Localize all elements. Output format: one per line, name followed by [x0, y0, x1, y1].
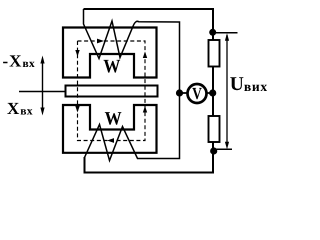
label W: bottom winding: [105, 112, 122, 125]
wire: bottom supply wire from W2 left lead to right bus: [85, 157, 215, 173]
tick: top output reference line: [213, 32, 238, 34]
arrowhead: up for -Xvh input: [40, 56, 44, 64]
flux path: dashed magnetic flux loop through both cores and armature: [78, 41, 146, 141]
node: junction dot right of voltmeter on bus: [209, 89, 216, 96]
label Uvih: output voltage: [230, 77, 267, 91]
node: bottom output junction dot: [210, 147, 217, 154]
winding W1: zigzag coil on top core with leads to wire and voltmeter: [84, 9, 180, 93]
resistor R1: upper divider resistor: [209, 40, 220, 67]
label Xvh: positive input displacement: [7, 103, 32, 115]
tick: bottom output reference line: [214, 148, 232, 150]
resistor R2: lower divider resistor: [209, 116, 220, 142]
input arrow line: displacement axis: [42, 60, 44, 112]
wire: right bus between resistor R1 and resistor R2: [212, 66, 214, 116]
wire: right bus upper segment down to resistor R1: [212, 8, 214, 40]
label V: voltmeter: [192, 88, 202, 99]
armature: movable plate between cores: [66, 86, 158, 97]
winding W2: zigzag coil on bottom core with leads to wire and voltmeter: [85, 93, 180, 173]
flux arrow: up-pointing on right dashed edge in top core: [143, 52, 147, 59]
wire: voltmeter horizontal connection: [180, 92, 214, 94]
label -Xvh: negative input displacement: [3, 55, 34, 67]
flux arrow: left-pointing on bottom dashed edge: [107, 138, 114, 143]
flux arrow: right-pointing on top dashed edge: [97, 39, 104, 44]
dimension line: Uvih vertical with arrows: [226, 35, 228, 146]
wire: top supply wire from W1 left lead to right bus: [84, 8, 214, 10]
leader line: armature link to input arrows: [19, 91, 65, 93]
arrowhead: down at bottom of dimension line: [225, 142, 229, 150]
flux arrow: down-pointing on left dashed edge in top core: [75, 50, 79, 57]
arrowhead: up at top of dimension line: [225, 33, 229, 41]
node: top output junction dot: [209, 29, 216, 36]
node: junction dot left of voltmeter: [176, 89, 183, 96]
voltmeter V: circle body: [188, 84, 207, 103]
flux arrow: up-pointing on right dashed edge near bottom core: [143, 106, 147, 113]
core: top E-core of differential transformer: [63, 28, 157, 78]
arrowhead: down for Xvh input: [40, 108, 44, 116]
wire: right bus lower segment from R2 to bottom wire: [212, 142, 214, 173]
flux arrow: down-pointing on left dashed edge near bottom core: [75, 106, 79, 113]
label W: top winding: [104, 60, 121, 73]
core: bottom E-core of differential transformer: [63, 105, 157, 153]
